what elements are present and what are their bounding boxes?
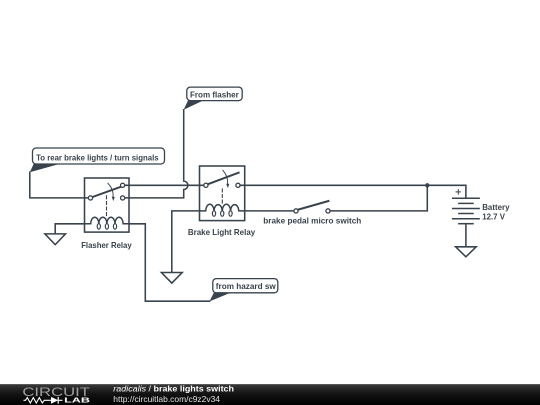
junction node — [425, 183, 429, 187]
svg-text:http://circuitlab.com/c9z2v34: http://circuitlab.com/c9z2v34 — [113, 394, 220, 404]
svg-text:Brake Light Relay: Brake Light Relay — [188, 227, 256, 237]
wire flasher coil right to "from hazard sw" flag — [129, 224, 210, 301]
footer bar — [0, 384, 540, 405]
wire from "To rear" flag to flasher relay common terminal — [30, 172, 89, 198]
wire flasher coil left to ground — [55, 224, 84, 234]
wire flasher relay NO terminal to brake relay left terminal — [125, 184, 204, 186]
switch brake pedal micro switch — [294, 201, 330, 213]
svg-text:brake pedal micro switch: brake pedal micro switch — [263, 215, 361, 225]
wire from "From flasher" flag down with hop over horizontal wire, to flasher relay NC terminal — [125, 110, 188, 198]
svg-text:12.7 V: 12.7 V — [482, 211, 505, 221]
wire brake relay coil left to ground — [172, 211, 200, 273]
svg-text:Flasher Relay: Flasher Relay — [81, 240, 132, 250]
svg-text:radicalis / brake lights switc: radicalis / brake lights switch — [113, 384, 234, 394]
label Battery 12.7 V — [482, 202, 510, 222]
svg-text:To rear brake lights / turn si: To rear brake lights / turn signals — [36, 153, 159, 163]
svg-text:LAB: LAB — [64, 396, 91, 405]
svg-text:From flasher: From flasher — [190, 89, 240, 99]
relay Brake Light Relay — [200, 166, 245, 221]
svg-text:Battery: Battery — [482, 202, 510, 212]
svg-text:from hazard sw: from hazard sw — [216, 281, 277, 291]
ground (brake relay coil) — [161, 273, 182, 284]
ground (flasher coil) — [45, 234, 66, 245]
logo CircuitLab — [22, 385, 91, 405]
flag label "From flasher" — [184, 87, 243, 110]
wire battery negative to ground — [465, 224, 467, 247]
flag label "To rear brake lights / turn signals" — [30, 148, 165, 172]
flag label "from hazard sw" — [210, 279, 278, 302]
relay Flasher Relay — [85, 178, 130, 232]
wire micro switch right to junction — [330, 185, 427, 211]
battery V1 — [453, 190, 479, 224]
ground (battery) — [456, 247, 477, 257]
wire brake relay NO terminal to battery — [240, 185, 466, 198]
wire brake relay coil right to micro switch — [245, 210, 294, 212]
